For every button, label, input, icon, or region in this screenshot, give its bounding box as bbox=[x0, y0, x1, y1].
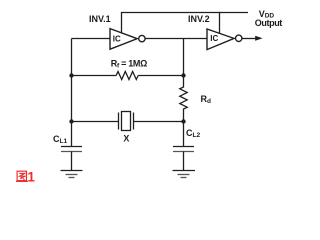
svg-text:1: 1 bbox=[27, 170, 35, 185]
resistor Rf zigzag bbox=[116, 72, 138, 80]
output arrowhead bbox=[255, 36, 262, 41]
capacitor CL1 top plate bbox=[61, 146, 82, 148]
inverter INV.1 triangle bbox=[110, 29, 137, 50]
resistor Rd zigzag bbox=[180, 76, 187, 122]
wire INV.2 output to arrow bbox=[242, 38, 256, 40]
svg-text:Rf = 1MΩ: Rf = 1MΩ bbox=[111, 59, 147, 70]
wire VDD top rail bbox=[122, 12, 249, 14]
wire VDD drop to INV.2 power pin bbox=[219, 12, 221, 34]
svg-text:IC: IC bbox=[113, 34, 121, 43]
wire CL2 to ground bbox=[183, 152, 185, 171]
capacitor CL1 bottom plate bbox=[61, 151, 82, 153]
capacitor CL2 top plate bbox=[173, 146, 194, 148]
capacitor CL2 bottom plate bbox=[173, 151, 194, 153]
svg-text:Output: Output bbox=[255, 18, 282, 28]
svg-text:IC: IC bbox=[210, 34, 218, 43]
junction node Rf left bbox=[69, 73, 73, 77]
svg-text:X: X bbox=[123, 134, 129, 144]
svg-text:CL2: CL2 bbox=[186, 128, 200, 139]
svg-text:INV.1: INV.1 bbox=[89, 14, 111, 24]
figure caption: hanzi TU (figure) drawn as paths, red bbox=[16, 171, 28, 181]
wire drop from node between inverters to Rf right end bbox=[183, 39, 185, 76]
crystal X body rectangle bbox=[122, 112, 131, 131]
junction node Rf right bbox=[181, 73, 185, 77]
wire left rail bbox=[71, 39, 73, 147]
wire INV.1 output to INV.2 input bbox=[145, 38, 207, 40]
junction node crystal right bbox=[181, 119, 185, 123]
wire Rf row left segment bbox=[72, 75, 117, 77]
svg-text:Rd: Rd bbox=[201, 94, 212, 105]
wire VDD drop to INV.1 power pin bbox=[121, 12, 123, 33]
wire CL2 column bbox=[183, 122, 185, 147]
svg-text:INV.2: INV.2 bbox=[188, 14, 210, 24]
crystal X right plate bbox=[133, 113, 135, 130]
wire CL1 to ground bbox=[71, 152, 73, 171]
wire input to INV.1 bbox=[72, 38, 111, 40]
inverter INV.1 output bubble bbox=[139, 35, 145, 41]
wire Rf row right segment bbox=[138, 75, 183, 77]
crystal X left plate bbox=[118, 113, 120, 130]
wire crystal row left segment bbox=[72, 121, 119, 123]
junction node crystal left bbox=[69, 119, 73, 123]
svg-text:CL1: CL1 bbox=[53, 134, 67, 145]
ground under CL2 bbox=[173, 170, 196, 172]
wire crystal row right segment bbox=[134, 121, 184, 123]
ground under CL1 bbox=[61, 170, 83, 172]
inverter INV.2 triangle bbox=[207, 29, 234, 50]
inverter INV.2 output bubble bbox=[236, 35, 242, 41]
